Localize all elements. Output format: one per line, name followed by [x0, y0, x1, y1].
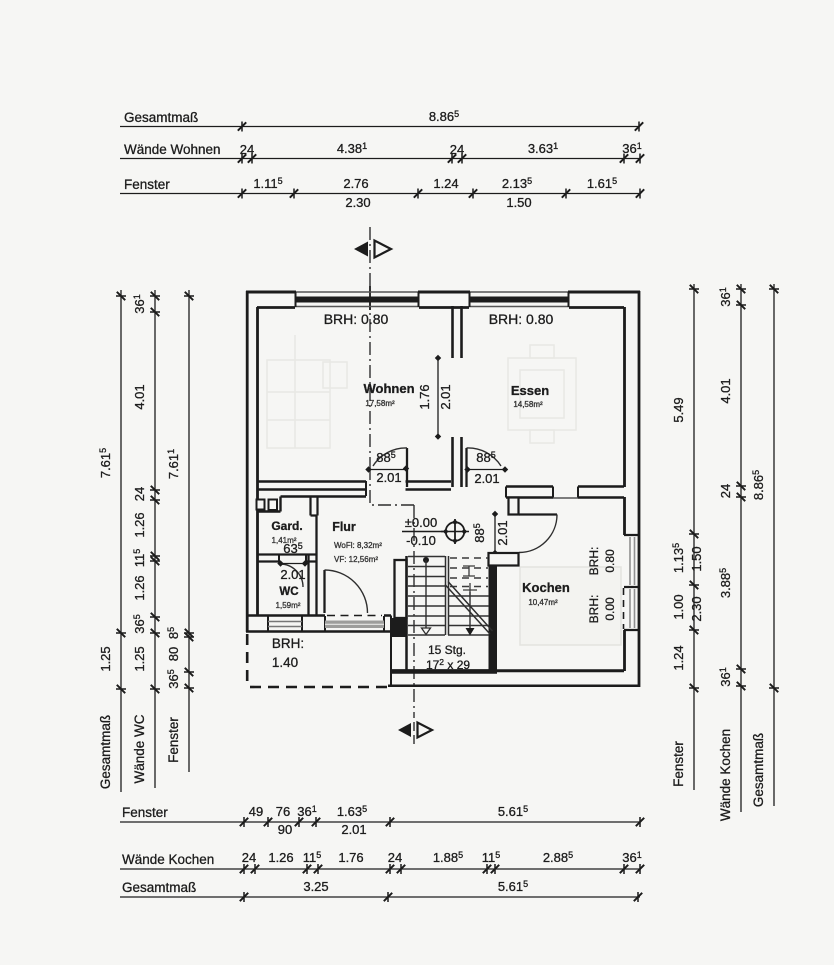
window right wall BRH 0.00 glazing + dashed floor opening: [630, 589, 635, 628]
section marker bottom: [398, 722, 432, 744]
top wall inner face + jambs: [257, 306, 624, 309]
partition Wohnen/Essen lower stub: [453, 437, 462, 487]
svg-text:24: 24: [388, 850, 402, 865]
svg-text:1.26: 1.26: [132, 512, 147, 537]
faint furniture Wohnen: [267, 335, 347, 448]
Wohnen south wall (partition band): [258, 482, 366, 490]
bottom exterior wall: [391, 669, 624, 672]
svg-text:5.49: 5.49: [671, 397, 686, 422]
survey point circle: [441, 519, 469, 544]
svg-text:1.24: 1.24: [671, 645, 686, 670]
svg-text:49: 49: [249, 804, 263, 819]
exterior wall left: [246, 291, 249, 632]
dim door D1 88.5/2.01: [369, 469, 405, 471]
WC north wall + door D5: [257, 553, 317, 555]
svg-text:Essen: Essen: [511, 383, 549, 398]
svg-text:Wände Kochen: Wände Kochen: [122, 852, 214, 867]
svg-text:Kochen: Kochen: [522, 580, 570, 595]
svg-text:24: 24: [132, 487, 147, 501]
svg-text:1.76: 1.76: [338, 850, 363, 865]
Kochen west wall stub + door D3: [509, 498, 519, 515]
svg-text:Wände Wohnen: Wände Wohnen: [124, 142, 221, 157]
section marker top: [354, 241, 391, 258]
svg-text:90: 90: [278, 822, 292, 837]
svg-text:1.50: 1.50: [689, 546, 704, 571]
stair bay SE chunk: [489, 553, 519, 566]
svg-text:Wohnen: Wohnen: [363, 381, 414, 396]
svg-text:4.01: 4.01: [132, 384, 147, 409]
svg-text:24: 24: [242, 850, 256, 865]
exterior wall right: [638, 291, 641, 687]
WC window glazing: [268, 622, 302, 627]
dim column Gesamtmass right: [751, 284, 779, 807]
svg-text:Gesamtmaß: Gesamtmaß: [751, 733, 766, 807]
south exterior wall (WC / entrance): [246, 614, 391, 616]
svg-text:1,41m²: 1,41m²: [272, 536, 297, 545]
svg-text:17,58m²: 17,58m²: [365, 399, 395, 408]
svg-text:0.00: 0.00: [603, 597, 617, 621]
svg-text:76: 76: [276, 804, 290, 819]
dim column Fenster right: [671, 284, 704, 790]
Gard east stub: [311, 497, 318, 516]
svg-text:24: 24: [718, 484, 733, 498]
svg-text:Flur: Flur: [332, 520, 356, 534]
faint kitchen counter Kochen: [520, 567, 621, 645]
svg-text:1.00: 1.00: [671, 594, 686, 619]
svg-text:Wände WC: Wände WC: [132, 714, 147, 783]
faint furniture Essen: [508, 345, 576, 443]
svg-text:10,47m²: 10,47m²: [528, 598, 558, 607]
svg-text:Gesamtmaß: Gesamtmaß: [122, 880, 196, 895]
svg-text:24: 24: [450, 142, 464, 157]
svg-text:1.24: 1.24: [433, 176, 458, 191]
stair treads upper flight (dashed above break): [450, 558, 488, 587]
svg-text:BRH:: BRH:: [272, 636, 304, 651]
dim column Gesamtmass left: [98, 290, 126, 792]
svg-text:2.01: 2.01: [438, 384, 453, 409]
dim column Fenster left: [166, 290, 194, 772]
dim row Gesamtmass bottom: [120, 879, 642, 902]
dashed projection wall bottom-left (BRH 1.40 area): [246, 634, 249, 687]
svg-text:2.01: 2.01: [376, 470, 401, 485]
svg-text:15 Stg.: 15 Stg.: [428, 643, 466, 657]
svg-text:Gard.: Gard.: [271, 519, 302, 533]
svg-text:2.01: 2.01: [474, 471, 499, 486]
door D1 Wohnen-Flur leaf + swing: [406, 448, 408, 487]
entrance door D4 leaf + swing: [323, 570, 325, 613]
svg-text:±0.00: ±0.00: [405, 515, 437, 530]
exterior wall top: outer face line: [246, 291, 640, 293]
svg-text:1.26: 1.26: [268, 850, 293, 865]
dim column Waende WC left: [132, 290, 160, 788]
svg-text:VF: 12,56m²: VF: 12,56m²: [334, 555, 378, 564]
stair east wall (dark): [489, 565, 498, 672]
svg-text:0.80: 0.80: [603, 549, 617, 573]
stair column + cross symbols: [463, 566, 475, 576]
svg-text:2.76: 2.76: [343, 176, 368, 191]
stair break line (double diagonal): [445, 582, 493, 635]
window W1 top (Wohnen) glazing: [295, 297, 419, 303]
svg-text:1.26: 1.26: [132, 575, 147, 600]
window sills right wall: [624, 535, 639, 630]
dim partition opening 1.76/2.01: [437, 358, 439, 437]
partition Wohnen/Essen upper stub: [453, 306, 462, 358]
Essen south wall + door D2: [465, 448, 467, 487]
svg-text:Gesamtmaß: Gesamtmaß: [98, 715, 113, 789]
svg-text:2.01: 2.01: [341, 822, 366, 837]
svg-text:4.01: 4.01: [718, 378, 733, 403]
entrance door sill (grey): [325, 621, 384, 629]
svg-text:Fenster: Fenster: [124, 177, 170, 192]
stair treads upper flight (solid below break): [448, 596, 489, 635]
svg-text:WoFl: 8,32m²: WoFl: 8,32m²: [334, 541, 382, 550]
dim row Waende Kochen bottom: [120, 850, 644, 874]
svg-text:Fenster: Fenster: [166, 717, 181, 763]
WC east wall: [309, 516, 317, 617]
section line (dash-dot): [369, 227, 371, 467]
svg-text:1,59m²: 1,59m²: [276, 601, 301, 610]
dim column Waende Kochen right: [718, 284, 746, 821]
svg-text:BRH:: BRH:: [587, 595, 601, 624]
svg-text:1.40: 1.40: [272, 655, 298, 670]
stair walking line + arrows: [423, 557, 429, 563]
svg-text:1.25: 1.25: [98, 646, 113, 671]
Gard north wall line + duct boxes: [281, 495, 367, 497]
svg-text:1.25: 1.25: [132, 646, 147, 671]
stair flight divider: [446, 556, 449, 635]
svg-text:BRH:: BRH:: [587, 547, 601, 576]
dim row Fenster top: [120, 176, 644, 210]
stair bay west side: [395, 560, 407, 618]
svg-text:BRH: 0.80: BRH: 0.80: [489, 311, 554, 327]
svg-text:3.25: 3.25: [303, 879, 328, 894]
window right wall BRH 0.80 glazing: [630, 537, 635, 585]
dim row Fenster bottom: [120, 804, 644, 837]
svg-text:2.01: 2.01: [280, 567, 305, 582]
window W2 top (Essen) glazing: [469, 297, 569, 303]
svg-text:Gesamtmaß: Gesamtmaß: [124, 110, 198, 125]
svg-text:172 x 29: 172 x 29: [426, 657, 470, 672]
svg-text:BRH: 0.80: BRH: 0.80: [324, 311, 389, 327]
stair treads lower flight: [408, 557, 445, 636]
svg-text:Fenster: Fenster: [671, 741, 686, 787]
dim door D3 88.5/2.01 (vertical): [494, 514, 496, 553]
svg-text:1.50: 1.50: [506, 195, 531, 210]
svg-text:Wände Kochen: Wände Kochen: [718, 729, 733, 821]
svg-text:-0.10: -0.10: [406, 533, 436, 548]
svg-text:2.30: 2.30: [689, 596, 704, 621]
svg-text:2.01: 2.01: [495, 520, 510, 545]
svg-text:14,58m²: 14,58m²: [513, 400, 543, 409]
svg-text:24: 24: [240, 142, 254, 157]
window mullion at section line: [369, 286, 371, 310]
svg-text:2.30: 2.30: [345, 195, 370, 210]
svg-text:80: 80: [166, 647, 181, 661]
svg-text:WC: WC: [279, 586, 298, 598]
dim row Waende Wohnen top: [120, 141, 644, 164]
dim row Gesamtmass top: [120, 109, 643, 132]
svg-text:1.76: 1.76: [417, 384, 432, 409]
svg-text:Fenster: Fenster: [122, 805, 168, 820]
